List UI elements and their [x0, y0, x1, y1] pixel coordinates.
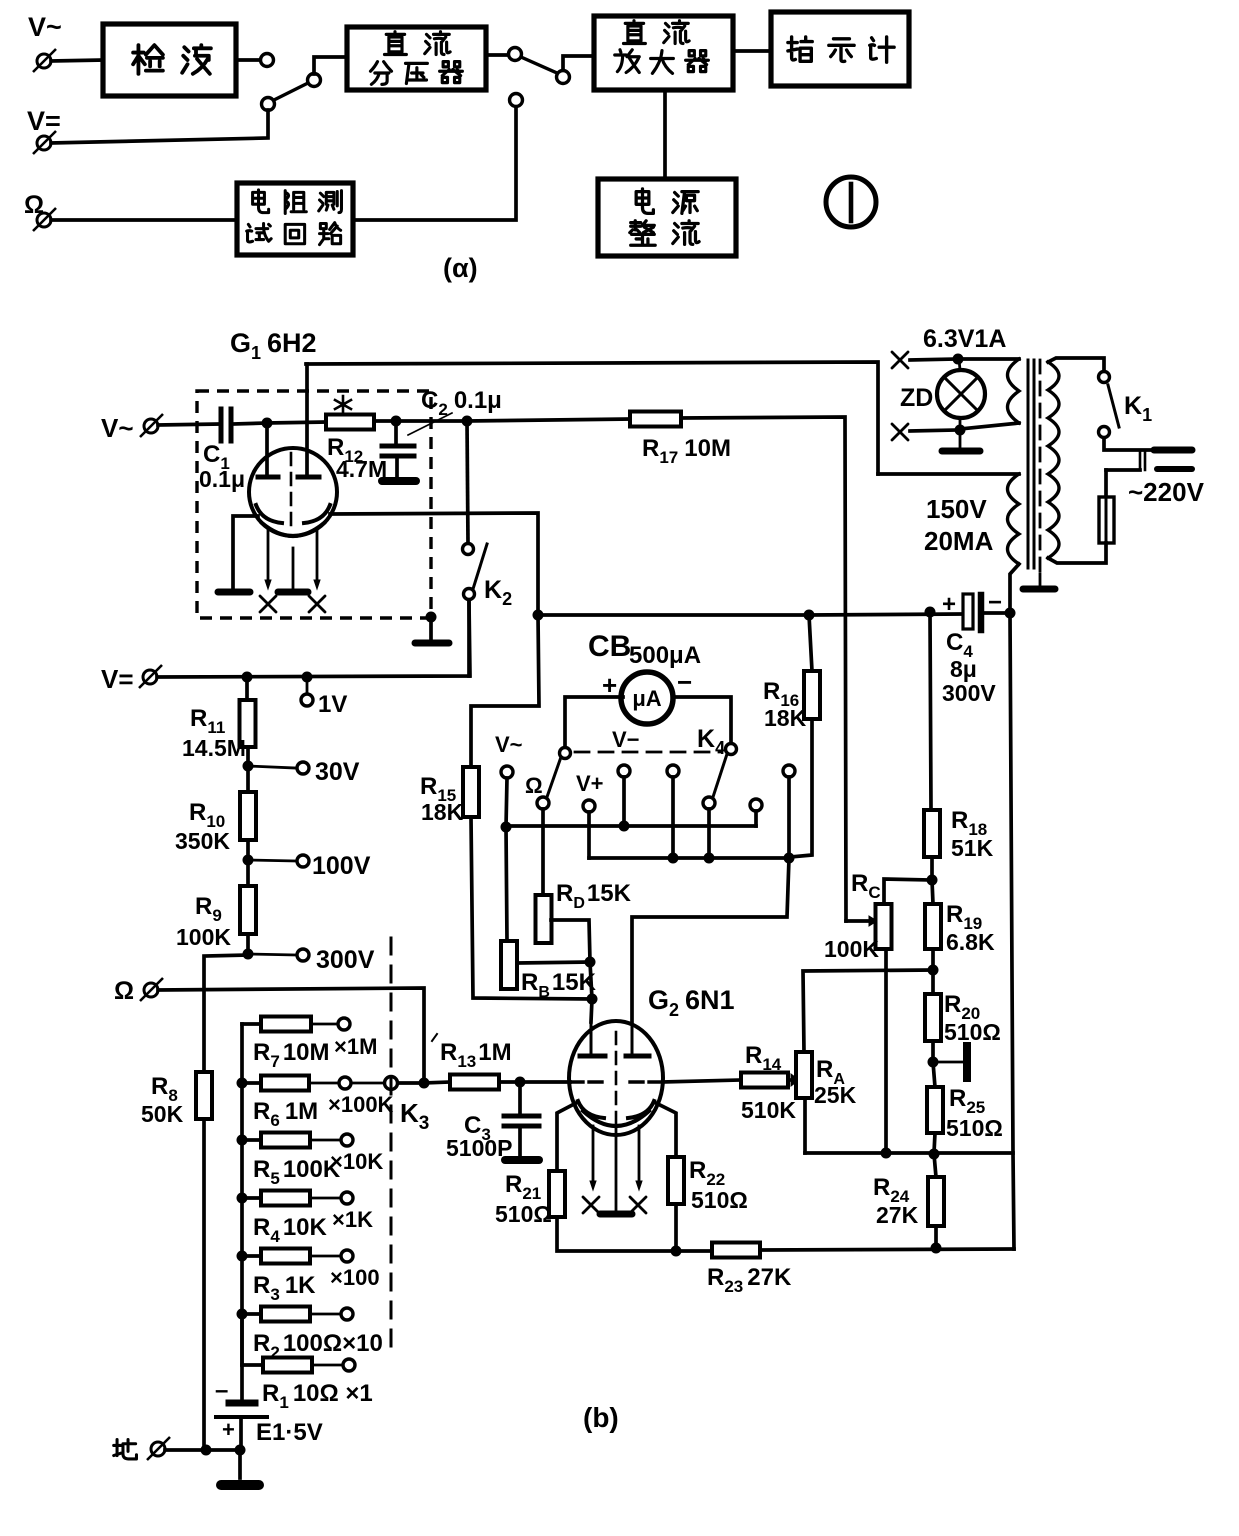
node V- bus1 junction: [619, 821, 630, 832]
svg-text:×100K: ×100K: [328, 1092, 394, 1117]
wire bus2 node to G2 right anode: [632, 858, 789, 1022]
wire AC line to R17: [467, 419, 630, 421]
switch K4 blade2: [713, 754, 727, 797]
wire 300V tap: [248, 954, 295, 955]
G1 filament leads with X: [267, 528, 270, 582]
wire K4 lower contact to bus2: [707, 809, 711, 858]
wire junction to G2 left anode: [591, 999, 592, 1022]
svg-text:51K: 51K: [951, 835, 994, 861]
svg-text:150V: 150V: [926, 494, 987, 524]
node detector output contact: [261, 54, 274, 67]
wire X bottom to lamp bottom: [910, 430, 958, 431]
node filament terminal X bottom: [892, 424, 908, 440]
svg-text:V~: V~: [101, 413, 134, 443]
node R15 bottom junction: [587, 994, 598, 1005]
node R25 bottom junction: [929, 1149, 940, 1160]
svg-text:510Ω: 510Ω: [944, 1019, 1001, 1045]
wire RA top to R19/R20 node: [803, 970, 933, 1052]
wire right rail: [1010, 613, 1014, 1249]
wire contact c to bus2: [671, 777, 675, 858]
G1 grid bars: [258, 475, 319, 480]
node R16 top junction: [804, 610, 815, 621]
node R18 column junction: [925, 607, 936, 618]
resistor R18 51K: [924, 810, 940, 857]
svg-text:100K: 100K: [176, 924, 231, 950]
switch K4 blade1: [547, 757, 561, 797]
svg-text:0.1μ: 0.1μ: [199, 466, 245, 492]
potentiometer RA 25K: [796, 1052, 812, 1098]
node R5 ladder junction: [237, 1135, 248, 1146]
wire arrow into Rc wiper: [846, 919, 869, 923]
wire 100V tap: [248, 860, 295, 861]
node 30V tap junction: [243, 761, 254, 772]
G2 right cathode to R22: [654, 1102, 676, 1157]
node R4 ladder junction: [237, 1193, 248, 1204]
node R11 top junction: [242, 672, 253, 683]
wire Rc top to R18/R19 node: [884, 879, 932, 904]
wire lower bus: [805, 1151, 1013, 1155]
block: DC voltage divider 直流分压器: [347, 27, 486, 90]
wire C1 to grid node: [234, 423, 267, 424]
wire C3 node to G2 left grid: [520, 1080, 570, 1084]
node earth terminal: [114, 1440, 137, 1459]
svg-text:6.3V1A: 6.3V1A: [923, 325, 1006, 353]
transformer shield dashed to ground: [1039, 360, 1042, 578]
node bus2 right junction: [784, 853, 795, 864]
svg-text:(b): (b): [583, 1402, 619, 1433]
wire R17 to Rc wiper column: [681, 417, 846, 921]
wire amplifier to indicator: [733, 49, 771, 53]
wire R25 bottom to bus: [934, 1133, 935, 1153]
node K2 branch junction: [462, 416, 473, 427]
G2 grid dashes: [572, 1080, 661, 1083]
transformer primary winding: [1048, 362, 1059, 558]
svg-text:(α): (α): [443, 253, 478, 283]
resistor R12 4.7M: [326, 415, 374, 430]
G2 bottom arc: [583, 1111, 649, 1126]
svg-text:27K: 27K: [876, 1202, 919, 1228]
wire primary top to K1: [1048, 358, 1104, 371]
tube G1 6H2 envelope: [249, 448, 337, 536]
node divider output contact: [509, 48, 522, 61]
node K3 pole contact: [385, 1077, 398, 1090]
wire RB side lead to junction: [518, 962, 590, 963]
svg-text:×1K: ×1K: [332, 1207, 373, 1232]
G2 filament leads with X: [592, 1126, 595, 1183]
svg-text:5100P: 5100P: [446, 1135, 513, 1161]
select-at-test asterisk mark: [335, 396, 351, 413]
svg-text:510Ω: 510Ω: [691, 1187, 748, 1213]
ground symbol main: [238, 1450, 242, 1478]
wire cathode rail: [538, 613, 809, 617]
svg-text:V−: V−: [612, 727, 640, 752]
svg-text:50K: 50K: [141, 1101, 184, 1127]
svg-text:×10K: ×10K: [330, 1149, 383, 1174]
block: detector 检波: [103, 24, 236, 96]
wire rail to C4: [809, 614, 961, 615]
node contact c: [667, 765, 679, 777]
wire anode column down: [590, 962, 592, 999]
G1 cathode hooks: [256, 505, 282, 523]
wire fuse to primary bottom: [1048, 543, 1106, 563]
svg-text:V+: V+: [576, 771, 604, 796]
node shield ground junction: [426, 612, 437, 623]
wire meter right to K4 pivot2: [673, 697, 731, 743]
switch K3 blade: [351, 1082, 384, 1085]
node R8 ground junction: [201, 1445, 212, 1456]
fuse in primary circuit: [1099, 497, 1114, 543]
node RD/RB junction: [585, 957, 596, 968]
transformer core: [1028, 360, 1034, 568]
node cathode rail junction: [533, 610, 544, 621]
wire bus2: [589, 856, 789, 860]
resistor R13 1M: [424, 1082, 450, 1083]
wire R18 column: [930, 612, 931, 810]
figure number 1 in circle: [826, 177, 876, 227]
resistor R7 10M: [242, 1022, 261, 1026]
resistor R3 1K: [242, 1254, 261, 1258]
svg-text:510K: 510K: [741, 1097, 796, 1123]
wire V= terminal to selector: [51, 110, 268, 143]
svg-text:20MA: 20MA: [924, 526, 994, 556]
transformer 150V secondary winding: [878, 472, 1019, 476]
switch S1a V~/V= selector blade: [274, 83, 308, 100]
node 100V tap junction: [243, 855, 254, 866]
switch K2 contacts and blade: [463, 544, 474, 555]
svg-text:18K: 18K: [421, 799, 464, 825]
resistor R15 18K: [471, 615, 539, 767]
node K3 output junction: [419, 1078, 430, 1089]
resistor R6 1M: [242, 1081, 261, 1085]
potentiometer Rc 100K body: [876, 904, 892, 949]
wire K1 to mains plug: [1104, 438, 1152, 450]
svg-text:1V: 1V: [318, 691, 347, 718]
svg-text:G26N1: G26N1: [648, 985, 735, 1020]
wire divider output: [486, 53, 508, 57]
G1 center divider dashed: [290, 453, 293, 525]
svg-text:Ω: Ω: [114, 977, 134, 1005]
switch K4 gang dashed link: [575, 751, 720, 754]
node battery ground junction: [235, 1445, 246, 1456]
transformer 6.3V secondary winding: [958, 357, 1019, 361]
node K4b bus2 junction: [704, 853, 715, 864]
wire ohm test loop to contact: [353, 107, 516, 220]
svg-text:Ω: Ω: [525, 773, 543, 798]
svg-text:V~: V~: [28, 12, 62, 42]
mains plug symbol: [1140, 452, 1145, 470]
svg-text:+: +: [222, 1417, 235, 1442]
svg-text:G16H2: G16H2: [230, 328, 317, 363]
resistor RB 15K: [501, 941, 517, 989]
node R3 ladder junction: [237, 1251, 248, 1262]
G2 left cathode to R21: [557, 1102, 578, 1171]
wire bus1: [506, 824, 756, 828]
resistor R20 510ohm: [931, 970, 935, 994]
node R20 bottom junction: [928, 1057, 939, 1068]
wire contact e to bus2 node: [787, 777, 791, 857]
wire earth terminal line: [165, 1448, 240, 1452]
wire ohm terminal to test loop: [51, 218, 237, 222]
wire rail R23 to right corner: [760, 1249, 1014, 1250]
G1 bottom arc: [262, 523, 324, 536]
label R13 value: [432, 1034, 437, 1041]
node contact K4 lower: [703, 797, 715, 809]
svg-text:×100: ×100: [330, 1265, 380, 1290]
svg-text:350K: 350K: [175, 828, 230, 854]
switch K2 upper lead: [467, 421, 468, 543]
wire R14 arrow to RA wiper: [788, 1078, 791, 1082]
svg-text:CB: CB: [588, 630, 631, 663]
wire top anode rail: [306, 362, 878, 474]
wire R15 bottom to anode junction: [471, 817, 592, 999]
block: DC amplifier 直流放大器: [594, 16, 733, 90]
wire selector pivot to divider box: [314, 57, 347, 74]
switch K3 wafer dashed line: [390, 938, 393, 1352]
resistor R17 10M: [630, 412, 681, 427]
wire C2 node to K2 node: [396, 419, 467, 423]
wire X top to lamp node: [910, 359, 958, 360]
svg-text:14.5M: 14.5M: [182, 735, 246, 761]
G1 left cathode to internal ground: [233, 516, 258, 588]
node c bus2 junction: [668, 853, 679, 864]
node selector pivot: [308, 74, 321, 87]
battery E 1.5V: [240, 1365, 244, 1400]
node bus1 left junction: [501, 822, 512, 833]
meter CB microammeter: [621, 672, 673, 724]
chassis tab at R20 node: [933, 1061, 962, 1064]
wire ohm contact to RD: [541, 809, 545, 895]
svg-text:ZD: ZD: [900, 384, 933, 412]
wire R8 bottom to ground line: [202, 1119, 206, 1450]
svg-text:500μA: 500μA: [629, 642, 701, 669]
wire RD side lead to anode column: [551, 920, 590, 962]
wire C4 to right rail: [984, 611, 1010, 615]
node R2 ladder junction: [237, 1309, 248, 1320]
node C3 junction: [515, 1077, 526, 1088]
svg-text:18K: 18K: [764, 705, 807, 731]
node 1V tap junction: [302, 672, 313, 683]
switch K1 contacts and blade: [1099, 372, 1110, 383]
node contact e: [783, 765, 795, 777]
wire amplifier to power supply: [663, 90, 667, 179]
resistor R8 50K: [196, 1072, 212, 1119]
node K4 pivot2: [726, 744, 737, 755]
resistor R9 100K: [246, 860, 250, 886]
wire RA bottom to lower bus: [803, 1098, 807, 1153]
wire plug lower to fuse: [1106, 468, 1140, 472]
node R19/R20/RA junction: [928, 965, 939, 976]
wire Rc bottom to lower bus: [884, 949, 888, 1153]
node 1V tap contact: [306, 677, 309, 693]
node right rail top junction: [1005, 608, 1016, 619]
wire 30V tap: [248, 766, 295, 768]
block: resistance test loop 电阻测试回路: [237, 183, 353, 255]
node 300V tap junction: [243, 949, 254, 960]
wire grid node down to G1 grid: [265, 423, 269, 474]
resistor R2 100ohm: [242, 1312, 261, 1316]
svg-text:300V: 300V: [942, 680, 996, 706]
G2 center divider dashed: [615, 1032, 618, 1124]
resistor R21 510ohm: [549, 1171, 565, 1217]
wire R12 to C2 node: [374, 419, 396, 423]
wire R21 bottom to rail: [557, 1217, 712, 1251]
svg-text:100V: 100V: [312, 852, 371, 880]
svg-text:30V: 30V: [315, 758, 360, 786]
resistor RD 15K: [536, 895, 552, 943]
node G1 grid junction: [262, 418, 273, 429]
wire ladder common column: [240, 1024, 244, 1365]
wire 150V winding to right rail: [1010, 564, 1019, 613]
node R24 rail junction: [931, 1243, 942, 1254]
resistor R19 6.8K: [932, 880, 933, 904]
svg-text:E1·5V: E1·5V: [256, 1419, 323, 1446]
resistor R4 10K: [242, 1196, 261, 1200]
wire K3 pole to R13 node: [398, 1081, 424, 1085]
wire G2 right grid to R14: [663, 1080, 741, 1082]
block: indicator meter 指示计: [771, 12, 909, 86]
node R6 ladder junction: [237, 1078, 248, 1089]
wire V- contact to bus1: [622, 777, 626, 826]
node ohm-path contact: [510, 94, 523, 107]
svg-text:25K: 25K: [814, 1082, 857, 1108]
node R18/R19/Rc junction: [927, 875, 938, 886]
G2 cathode hooks: [578, 1101, 604, 1118]
wire K2 lower lead to V= line: [467, 600, 471, 676]
capacitor C1 0.1u: [221, 409, 231, 441]
node K4 pivot1: [560, 748, 571, 759]
wire ohm terminal to K3 common: [158, 988, 424, 1083]
switch S1b blade to amplifier: [521, 57, 557, 73]
ground of shield box: [429, 617, 433, 639]
wire V= line to K2: [157, 602, 470, 677]
tube G2 6N1 envelope: [569, 1021, 663, 1135]
resistor R5 100K: [242, 1138, 261, 1142]
wire 300V node to R8: [204, 955, 248, 1072]
svg-text:510Ω: 510Ω: [946, 1115, 1003, 1141]
wire V+ contact to bus2: [587, 812, 591, 858]
svg-text:μA: μA: [632, 686, 661, 711]
capacitor C2 0.1u to chassis: [394, 421, 398, 443]
resistor R1 10ohm: [242, 1314, 263, 1365]
node R22 rail junction: [671, 1246, 682, 1257]
wire V~ contact to bus1 to RB: [506, 778, 507, 941]
capacitor C3 5100P to chassis: [518, 1082, 522, 1113]
wire V~ terminal to detector box: [51, 60, 103, 61]
svg-text:510Ω: 510Ω: [495, 1201, 552, 1227]
wire R24 bottom to rail: [934, 1226, 938, 1248]
wire grid node to R12: [267, 422, 326, 423]
node contact d: [750, 799, 762, 811]
svg-text:8μ: 8μ: [950, 656, 977, 682]
resistor R11 14.5M: [245, 677, 249, 700]
svg-text:300V: 300V: [316, 946, 375, 974]
G1 anode lead to top rail: [305, 364, 309, 477]
svg-text:V=: V=: [101, 664, 134, 694]
block: power rectifier 电源整流: [598, 179, 736, 256]
svg-text:+: +: [942, 591, 956, 618]
svg-text:−: −: [677, 667, 692, 697]
G2 anode bars: [580, 1054, 649, 1059]
node amplifier input pivot: [557, 71, 570, 84]
wire meter left to K4 pivot1: [565, 697, 623, 747]
resistor R16 18K: [809, 615, 812, 671]
dashed shield box around G1 input: [197, 391, 431, 618]
resistor R14 510K: [741, 1073, 788, 1088]
resistor R10 350K: [246, 766, 250, 792]
wire G1 right cathode line: [330, 513, 538, 615]
node filament terminal X top: [892, 352, 908, 368]
lamp ZD: [959, 359, 960, 370]
wire battery to ground line: [239, 1417, 243, 1450]
node C2 junction: [391, 416, 402, 427]
wire R22 bottom to rail: [674, 1204, 678, 1251]
wire detector output: [236, 58, 261, 62]
ground under lamp: [942, 448, 980, 455]
resistor R23 27K in rail: [712, 1243, 760, 1258]
node Rc bottom junction: [881, 1148, 892, 1159]
resistor R25 510ohm: [933, 1062, 935, 1087]
resistor R24 27K: [934, 1154, 936, 1177]
svg-text:V~: V~: [495, 732, 523, 757]
wire V~ terminal to C1: [158, 424, 219, 425]
svg-text:100K: 100K: [824, 936, 879, 962]
svg-text:~220V: ~220V: [1128, 477, 1205, 507]
G2 anode leads: [590, 1022, 593, 1056]
wire contact d to bus1: [754, 811, 758, 826]
resistor R22 510ohm: [668, 1157, 684, 1204]
svg-text:6.8K: 6.8K: [946, 929, 995, 955]
wire pivot to amplifier box: [563, 56, 594, 70]
wire R16 bottom to bus2 node: [790, 719, 812, 857]
svg-text:×1M: ×1M: [334, 1034, 377, 1059]
